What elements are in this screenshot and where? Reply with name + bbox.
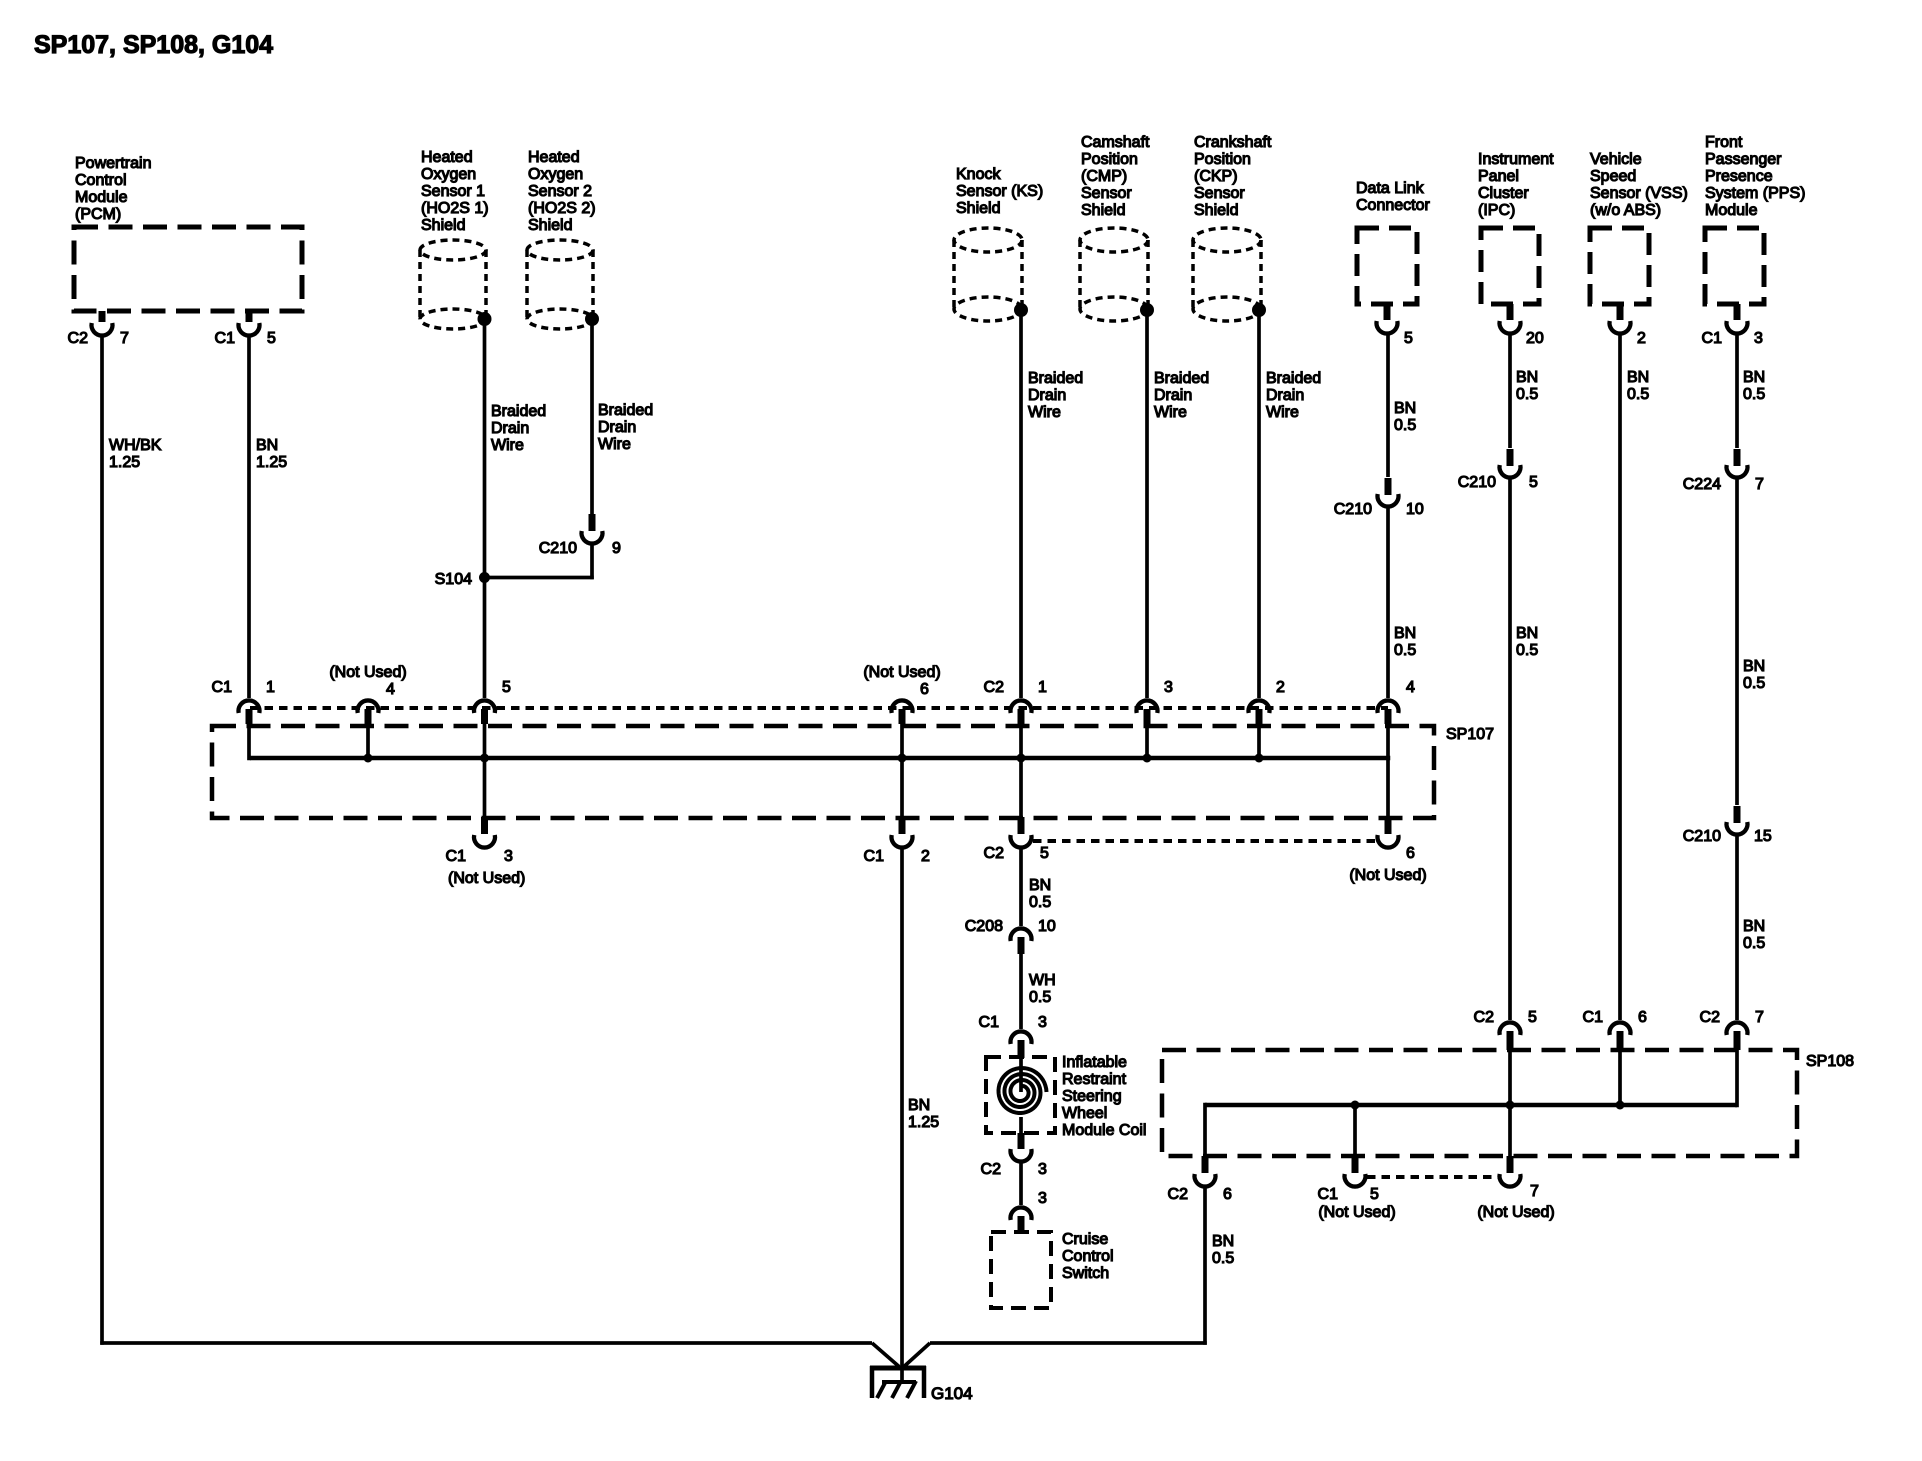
svg-text:3: 3 — [1038, 1014, 1047, 1031]
wire C1-6 to bus — [1616, 1050, 1625, 1110]
svg-text:C1: C1 — [1583, 1009, 1604, 1026]
svg-text:3: 3 — [1038, 1190, 1047, 1207]
wire bus to C2-6 corner — [1203, 1103, 1207, 1156]
wire horizontal to S104 — [483, 576, 594, 580]
svg-text:10: 10 — [1038, 918, 1056, 935]
svg-text:C2: C2 — [1168, 1186, 1189, 1203]
wire bottom right run to G104 — [904, 1341, 1207, 1366]
pin 6 (Not Used) out of SP107 — [1349, 817, 1426, 884]
wire BN 0.5 from VSS pin 2 to SP108 C1-6 — [1618, 334, 1622, 1020]
svg-text:(Not Used): (Not Used) — [329, 664, 406, 681]
svg-text:0.5: 0.5 — [1394, 642, 1416, 659]
svg-text:C210: C210 — [1683, 828, 1721, 845]
svg-text:C210: C210 — [1458, 474, 1496, 491]
svg-text:Sensor: Sensor — [1194, 185, 1245, 202]
svg-text:(HO2S 1): (HO2S 1) — [421, 200, 489, 217]
pin C2-7 of PCM — [68, 311, 129, 347]
svg-text:Braided: Braided — [1028, 370, 1083, 387]
svg-text:Heated: Heated — [528, 149, 580, 166]
wire BN 0.5 from DLC pin 5 — [1386, 334, 1390, 477]
module PPS box — [1705, 228, 1764, 304]
value label BN 0.5 (DLC upper) — [1394, 400, 1416, 434]
wire braided drain CMP down to SP107 pin 3 — [1145, 310, 1149, 698]
pin C1-1 into SP107 — [212, 679, 275, 724]
label G104 — [931, 1384, 973, 1403]
svg-text:(Not Used): (Not Used) — [863, 664, 940, 681]
svg-text:Speed: Speed — [1590, 168, 1636, 185]
value label WH 0.5 — [1029, 972, 1056, 1006]
wire from C210-9 down — [590, 543, 594, 579]
svg-text:SP108: SP108 — [1806, 1053, 1854, 1070]
wire C2-1 through bus to C2-5 — [1017, 724, 1026, 817]
svg-text:Data Link: Data Link — [1356, 180, 1425, 197]
wire C2-5 through bus to pin 7 — [1506, 1050, 1515, 1156]
svg-text:10: 10 — [1406, 501, 1424, 518]
pin C1-5 (Not Used) out of SP108 — [1318, 1156, 1396, 1221]
label Braided Drain Wire (KS) — [1028, 370, 1083, 421]
label Instrument Panel Cluster (IPC) — [1478, 151, 1554, 219]
title SP107, SP108, G104 — [34, 31, 273, 59]
module DLC box — [1357, 228, 1417, 304]
svg-text:5: 5 — [1404, 330, 1413, 347]
junction dot HO2S2 drain — [585, 312, 599, 326]
svg-text:Wire: Wire — [1154, 404, 1187, 421]
svg-text:Control: Control — [75, 172, 127, 189]
wire bottom left run to G104 — [100, 1341, 899, 1366]
svg-text:Position: Position — [1194, 151, 1251, 168]
svg-text:WH/BK: WH/BK — [109, 437, 162, 454]
pin 7 (Not Used) out of SP108 — [1477, 1156, 1554, 1221]
svg-text:0.5: 0.5 — [1212, 1250, 1234, 1267]
svg-text:Vehicle: Vehicle — [1590, 151, 1642, 168]
svg-text:6: 6 — [1406, 845, 1415, 862]
svg-text:Inflatable: Inflatable — [1062, 1054, 1127, 1071]
pin C2-1 into SP107 — [984, 679, 1047, 724]
svg-text:(CMP): (CMP) — [1081, 168, 1127, 185]
svg-text:(CKP): (CKP) — [1194, 168, 1238, 185]
wire pin4 to bus — [364, 724, 373, 763]
pin C1-6 into SP108 — [1583, 1009, 1647, 1050]
wire pin4r through bus to pin 6 bottom — [1386, 724, 1390, 817]
wire pin3 to bus — [1143, 724, 1152, 763]
pin C2-5 into SP108 — [1474, 1009, 1537, 1050]
svg-text:C224: C224 — [1683, 476, 1721, 493]
wire BN 0.5 from SP107 C2-5 — [1019, 847, 1023, 926]
svg-text:Heated: Heated — [421, 149, 473, 166]
shield HO2S1 cylinder — [420, 240, 486, 329]
svg-text:0.5: 0.5 — [1743, 935, 1765, 952]
value label BN 1.25 — [256, 437, 287, 471]
svg-text:C1: C1 — [979, 1014, 1000, 1031]
svg-text:C2: C2 — [981, 1161, 1002, 1178]
value label BN 0.5 (IPC upper) — [1516, 369, 1538, 403]
value label BN 0.5 (IPC lower) — [1516, 625, 1538, 659]
coil spiral symbol — [999, 1058, 1047, 1133]
svg-text:Panel: Panel — [1478, 168, 1519, 185]
svg-text:15: 15 — [1754, 828, 1772, 845]
svg-text:Passenger: Passenger — [1705, 151, 1782, 168]
wire BN 0.5 from PPS C1-3 — [1735, 334, 1739, 448]
module Cruise Control Switch box — [991, 1232, 1051, 1308]
shield CMP cylinder — [1080, 228, 1148, 321]
svg-text:Camshaft: Camshaft — [1081, 134, 1150, 151]
svg-text:BN: BN — [1743, 658, 1765, 675]
svg-text:Control: Control — [1062, 1248, 1114, 1265]
value label BN 0.5 (SP108 ground wire) — [1212, 1233, 1234, 1267]
connector C208 pin 10 — [965, 918, 1056, 954]
svg-text:1: 1 — [1038, 679, 1047, 696]
wire braided drain HO2S1 down to SP107 pin 5 — [483, 319, 487, 698]
svg-text:5: 5 — [502, 679, 511, 696]
svg-text:5: 5 — [1529, 474, 1538, 491]
svg-text:2: 2 — [1637, 330, 1646, 347]
label Vehicle Speed Sensor (VSS) (w/o ABS) — [1590, 151, 1688, 219]
svg-text:Connector: Connector — [1356, 197, 1430, 214]
svg-text:C1: C1 — [864, 848, 885, 865]
label Braided Drain Wire (HO2S1) — [491, 403, 546, 454]
svg-text:Sensor: Sensor — [1081, 185, 1132, 202]
svg-text:Braided: Braided — [1154, 370, 1209, 387]
svg-text:Module: Module — [1705, 202, 1758, 219]
svg-text:5: 5 — [1370, 1186, 1379, 1203]
svg-text:6: 6 — [920, 681, 929, 698]
svg-text:(Not Used): (Not Used) — [1349, 867, 1426, 884]
svg-text:5: 5 — [1528, 1009, 1537, 1026]
svg-text:BN: BN — [1212, 1233, 1234, 1250]
svg-text:1.25: 1.25 — [109, 454, 140, 471]
svg-text:Position: Position — [1081, 151, 1138, 168]
wire BN 0.5 from C210-15 to SP108 C2-7 — [1735, 835, 1739, 1020]
svg-text:C210: C210 — [539, 540, 577, 557]
svg-text:3: 3 — [1754, 330, 1763, 347]
pin C1-2 out of SP107 — [864, 817, 930, 865]
svg-text:0.5: 0.5 — [1394, 417, 1416, 434]
svg-text:(HO2S 2): (HO2S 2) — [528, 200, 596, 217]
pin 20 of IPC — [1499, 304, 1543, 347]
pin C2-6 out of SP108 — [1168, 1156, 1232, 1203]
svg-text:Cluster: Cluster — [1478, 185, 1529, 202]
svg-text:Presence: Presence — [1705, 168, 1773, 185]
svg-text:Front: Front — [1705, 134, 1743, 151]
wire braided drain HO2S2 down to C210 pin 9 — [590, 319, 594, 514]
pin C1-3 of PPS — [1702, 304, 1763, 347]
connector C210 pin 15 — [1683, 806, 1772, 845]
wire braided drain CKP down to SP107 pin 2 — [1257, 310, 1261, 698]
svg-text:2: 2 — [921, 848, 930, 865]
svg-text:0.5: 0.5 — [1743, 386, 1765, 403]
node dotted bus above SP107 — [250, 706, 1388, 710]
svg-text:Sensor (KS): Sensor (KS) — [956, 183, 1043, 200]
module VSS box — [1590, 228, 1649, 304]
svg-text:(Not Used): (Not Used) — [1318, 1204, 1395, 1221]
svg-text:(IPC): (IPC) — [1478, 202, 1515, 219]
module PCM box — [74, 227, 302, 311]
svg-text:1.25: 1.25 — [256, 454, 287, 471]
svg-text:Braided: Braided — [491, 403, 546, 420]
value label BN 0.5 (PPS upper) — [1743, 369, 1765, 403]
svg-text:Braided: Braided — [598, 402, 653, 419]
svg-text:BN: BN — [1394, 400, 1416, 417]
value label BN 1.25 (ground wire) — [908, 1097, 939, 1131]
svg-text:BN: BN — [1743, 369, 1765, 386]
svg-text:C1: C1 — [1318, 1186, 1339, 1203]
svg-text:20: 20 — [1526, 330, 1544, 347]
svg-text:Shield: Shield — [1081, 202, 1125, 219]
pin C1-5 of PCM — [215, 311, 276, 347]
shield KS cylinder — [954, 228, 1022, 321]
svg-text:Module Coil: Module Coil — [1062, 1122, 1146, 1139]
pin C2-5 out of SP107 — [984, 817, 1049, 862]
svg-text:(w/o ABS): (w/o ABS) — [1590, 202, 1661, 219]
pin 4 into SP107 right — [1378, 679, 1416, 724]
svg-text:3: 3 — [1038, 1161, 1047, 1178]
svg-text:0.5: 0.5 — [1516, 386, 1538, 403]
pin 5 of DLC — [1377, 304, 1414, 347]
pin 3 into SP107 — [1137, 679, 1174, 724]
svg-text:SP107, SP108, G104: SP107, SP108, G104 — [34, 31, 273, 59]
svg-text:Drain: Drain — [598, 419, 636, 436]
value label BN 0.5 (coil wire) — [1029, 877, 1051, 911]
shield CKP cylinder — [1193, 228, 1261, 321]
wire pin5 through bus to C1-3 — [480, 724, 489, 817]
node dotted link below SP107 — [1033, 839, 1377, 843]
svg-text:6: 6 — [1638, 1009, 1647, 1026]
svg-text:C210: C210 — [1334, 501, 1372, 518]
svg-text:Wire: Wire — [1266, 404, 1299, 421]
svg-text:5: 5 — [267, 330, 276, 347]
module steering wheel coil box — [986, 1057, 1055, 1133]
connector C210 pin 5 — [1458, 449, 1538, 491]
pin 2 of VSS — [1610, 304, 1647, 347]
svg-text:0.5: 0.5 — [1029, 989, 1051, 1006]
value label BN 0.5 (PPS lower) — [1743, 918, 1765, 952]
svg-text:Wire: Wire — [598, 436, 631, 453]
svg-text:4: 4 — [1406, 679, 1415, 696]
label Braided Drain Wire (CMP) — [1154, 370, 1209, 421]
wire BN 1.25 from PCM C1-5 down to SP107 C1-1 — [247, 336, 251, 698]
svg-text:1.25: 1.25 — [908, 1114, 939, 1131]
label SP108 — [1806, 1053, 1854, 1070]
pin C2-3 out of coil — [981, 1133, 1047, 1178]
svg-text:Shield: Shield — [528, 217, 572, 234]
wire pin2 to bus — [1255, 724, 1264, 763]
splice pack SP108 box — [1162, 1050, 1797, 1156]
svg-text:C2: C2 — [1474, 1009, 1495, 1026]
label Crankshaft Position (CKP) Sensor Shield — [1194, 134, 1272, 219]
svg-text:2: 2 — [1276, 679, 1285, 696]
svg-text:C1: C1 — [446, 848, 467, 865]
svg-text:S104: S104 — [435, 571, 472, 588]
junction dot KS drain — [1014, 303, 1028, 317]
ground G104 symbol — [870, 1366, 927, 1399]
junction dot HO2S1 drain — [478, 312, 492, 326]
wire BN 0.5 from C210-5 to SP108 C2-5 — [1508, 478, 1512, 1020]
svg-text:Steering: Steering — [1062, 1088, 1122, 1105]
junction dot CMP drain — [1140, 303, 1154, 317]
pin 6 (Not Used) into SP107 — [863, 664, 940, 724]
label SP107 — [1446, 726, 1494, 743]
svg-text:SP107: SP107 — [1446, 726, 1494, 743]
svg-text:Sensor (VSS): Sensor (VSS) — [1590, 185, 1688, 202]
svg-text:C2: C2 — [984, 845, 1005, 862]
node dotted link below SP108 — [1367, 1175, 1498, 1179]
svg-text:Drain: Drain — [1028, 387, 1066, 404]
wire BN 0.5 from C210-10 to SP107 pin 4 — [1386, 507, 1390, 698]
value label BN 0.5 (PPS mid) — [1743, 658, 1765, 692]
svg-text:7: 7 — [1530, 1183, 1539, 1200]
pin 3 of cruise switch — [1011, 1190, 1048, 1234]
svg-text:0.5: 0.5 — [1029, 894, 1051, 911]
connector C224 pin 7 — [1683, 449, 1764, 493]
svg-text:BN: BN — [1029, 877, 1051, 894]
label Heated Oxygen Sensor 1 (HO2S 1) Shield — [421, 149, 489, 234]
wire braided drain KS down to SP107 C2-1 — [1019, 310, 1023, 698]
label Camshaft Position (CMP) Sensor Shield — [1081, 134, 1150, 219]
svg-text:BN: BN — [1394, 625, 1416, 642]
svg-text:Sensor 1: Sensor 1 — [421, 183, 485, 200]
pin 2 into SP107 — [1249, 679, 1285, 724]
svg-text:(Not Used): (Not Used) — [448, 870, 525, 887]
connector C210 pin 9 — [539, 514, 621, 557]
svg-text:BN: BN — [1627, 369, 1649, 386]
svg-text:System (PPS): System (PPS) — [1705, 185, 1805, 202]
wire WH 0.5 from C208-10 — [1019, 954, 1023, 1029]
pin 4 (Not Used) into SP107 — [329, 664, 406, 724]
value label WH/BK 1.25 — [109, 437, 162, 471]
wire coil to cruise switch — [1019, 1161, 1023, 1205]
svg-text:0.5: 0.5 — [1743, 675, 1765, 692]
bus bar inside SP107 — [250, 756, 1390, 761]
connector C1 pin 3 of coil — [979, 1014, 1047, 1058]
svg-text:WH: WH — [1029, 972, 1056, 989]
svg-text:C2: C2 — [984, 679, 1005, 696]
svg-text:Wheel: Wheel — [1062, 1105, 1107, 1122]
svg-text:C1: C1 — [1702, 330, 1723, 347]
svg-text:(Not Used): (Not Used) — [1477, 1204, 1554, 1221]
svg-text:G104: G104 — [931, 1384, 973, 1403]
svg-text:Sensor 2: Sensor 2 — [528, 183, 592, 200]
label Data Link Connector — [1356, 180, 1430, 214]
connector C210 pin 10 — [1334, 478, 1424, 518]
pin C1-3 (Not Used) out of SP107 — [446, 817, 526, 887]
pin C2-7 into SP108 — [1700, 1009, 1764, 1050]
svg-text:7: 7 — [1755, 476, 1764, 493]
svg-text:BN: BN — [256, 437, 278, 454]
svg-text:Cruise: Cruise — [1062, 1231, 1108, 1248]
svg-text:Drain: Drain — [1154, 387, 1192, 404]
shield HO2S2 cylinder — [527, 240, 593, 329]
svg-text:C1: C1 — [215, 330, 236, 347]
svg-text:Oxygen: Oxygen — [528, 166, 583, 183]
wire C1-1 to bus — [247, 724, 251, 760]
wire BN 1.25 from SP107 C1-2 to G104 — [900, 847, 904, 1384]
svg-text:C1: C1 — [212, 679, 233, 696]
svg-text:9: 9 — [612, 540, 621, 557]
svg-text:5: 5 — [1040, 845, 1049, 862]
svg-text:C2: C2 — [68, 330, 89, 347]
svg-text:Instrument: Instrument — [1478, 151, 1554, 168]
wire BN 0.5 from SP108 C2-6 — [1203, 1186, 1207, 1345]
value label BN 0.5 (DLC lower) — [1394, 625, 1416, 659]
wire BN 0.5 from IPC pin 20 — [1508, 334, 1512, 448]
svg-text:BN: BN — [1516, 625, 1538, 642]
label Cruise Control Switch — [1062, 1231, 1114, 1282]
svg-text:0.5: 0.5 — [1516, 642, 1538, 659]
svg-text:Module: Module — [75, 189, 128, 206]
svg-text:Drain: Drain — [491, 420, 529, 437]
svg-text:Wire: Wire — [491, 437, 524, 454]
svg-text:Braided: Braided — [1266, 370, 1321, 387]
svg-text:Wire: Wire — [1028, 404, 1061, 421]
svg-text:3: 3 — [504, 848, 513, 865]
svg-text:Restraint: Restraint — [1062, 1071, 1127, 1088]
wire bus drop to C1-5 — [1351, 1101, 1360, 1157]
svg-text:7: 7 — [120, 330, 129, 347]
svg-text:Oxygen: Oxygen — [421, 166, 476, 183]
svg-text:0.5: 0.5 — [1627, 386, 1649, 403]
svg-text:BN: BN — [908, 1097, 930, 1114]
label Heated Oxygen Sensor 2 (HO2S 2) Shield — [528, 149, 596, 234]
label Inflatable Restraint Steering Wheel Module Coil — [1062, 1054, 1146, 1139]
svg-text:Crankshaft: Crankshaft — [1194, 134, 1272, 151]
svg-text:BN: BN — [1516, 369, 1538, 386]
wire WH/BK 1.25 from PCM C2-7 down — [100, 336, 104, 1345]
bus bar inside SP108 — [1205, 1103, 1737, 1108]
wire BN 0.5 from C224-7 down — [1735, 478, 1739, 805]
wire C2-7 to bus corner — [1735, 1050, 1739, 1107]
junction dot CKP drain — [1252, 303, 1266, 317]
svg-text:C208: C208 — [965, 918, 1003, 935]
svg-text:4: 4 — [386, 681, 395, 698]
svg-text:3: 3 — [1164, 679, 1173, 696]
svg-text:Powertrain: Powertrain — [75, 155, 151, 172]
svg-text:Switch: Switch — [1062, 1265, 1109, 1282]
splice S104 — [435, 571, 490, 588]
svg-text:7: 7 — [1755, 1009, 1764, 1026]
label Knock Sensor (KS) Shield — [956, 166, 1043, 217]
label Braided Drain Wire (CKP) — [1266, 370, 1321, 421]
svg-text:6: 6 — [1223, 1186, 1232, 1203]
pin 5 into SP107 — [474, 679, 511, 724]
svg-text:Drain: Drain — [1266, 387, 1304, 404]
wire pin6 through bus to C1-2 — [898, 724, 907, 817]
svg-text:Knock: Knock — [956, 166, 1001, 183]
svg-text:1: 1 — [266, 679, 275, 696]
label Braided Drain Wire (HO2S2) — [598, 402, 653, 453]
svg-text:Shield: Shield — [1194, 202, 1238, 219]
svg-text:C2: C2 — [1700, 1009, 1721, 1026]
svg-text:Shield: Shield — [956, 200, 1000, 217]
svg-text:(PCM): (PCM) — [75, 206, 121, 223]
module IPC box — [1481, 228, 1539, 304]
label Powertrain Control Module (PCM) — [75, 155, 151, 223]
svg-text:Shield: Shield — [421, 217, 465, 234]
svg-text:BN: BN — [1743, 918, 1765, 935]
label Front Passenger Presence System (PPS) Module — [1705, 134, 1805, 219]
value label BN 0.5 (VSS) — [1627, 369, 1649, 403]
splice pack SP107 box — [212, 726, 1434, 818]
